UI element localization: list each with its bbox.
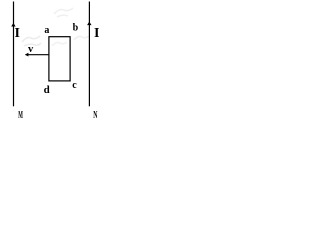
svg-text:M: M <box>18 109 23 121</box>
current arrow on wire N <box>87 22 91 26</box>
watermark squiggle 4 <box>52 42 67 46</box>
svg-text:I: I <box>94 26 99 41</box>
svg-text:d: d <box>44 84 50 96</box>
svg-text:b: b <box>73 23 79 34</box>
current arrow on wire M <box>11 23 15 27</box>
watermark squiggle 2 <box>54 8 73 17</box>
rectangular loop abcd <box>49 37 70 81</box>
watermark squiggle 1 <box>22 36 41 46</box>
svg-text:c: c <box>72 80 77 91</box>
velocity arrow v (leftward) <box>26 54 49 56</box>
wire M (left vertical conductor) <box>13 2 15 107</box>
svg-text:v: v <box>28 44 34 55</box>
svg-text:a: a <box>44 25 49 36</box>
watermark squiggle 3 <box>74 36 89 40</box>
wire N (right vertical conductor) <box>88 2 90 107</box>
svg-text:N: N <box>93 108 97 120</box>
svg-text:I: I <box>15 26 20 41</box>
